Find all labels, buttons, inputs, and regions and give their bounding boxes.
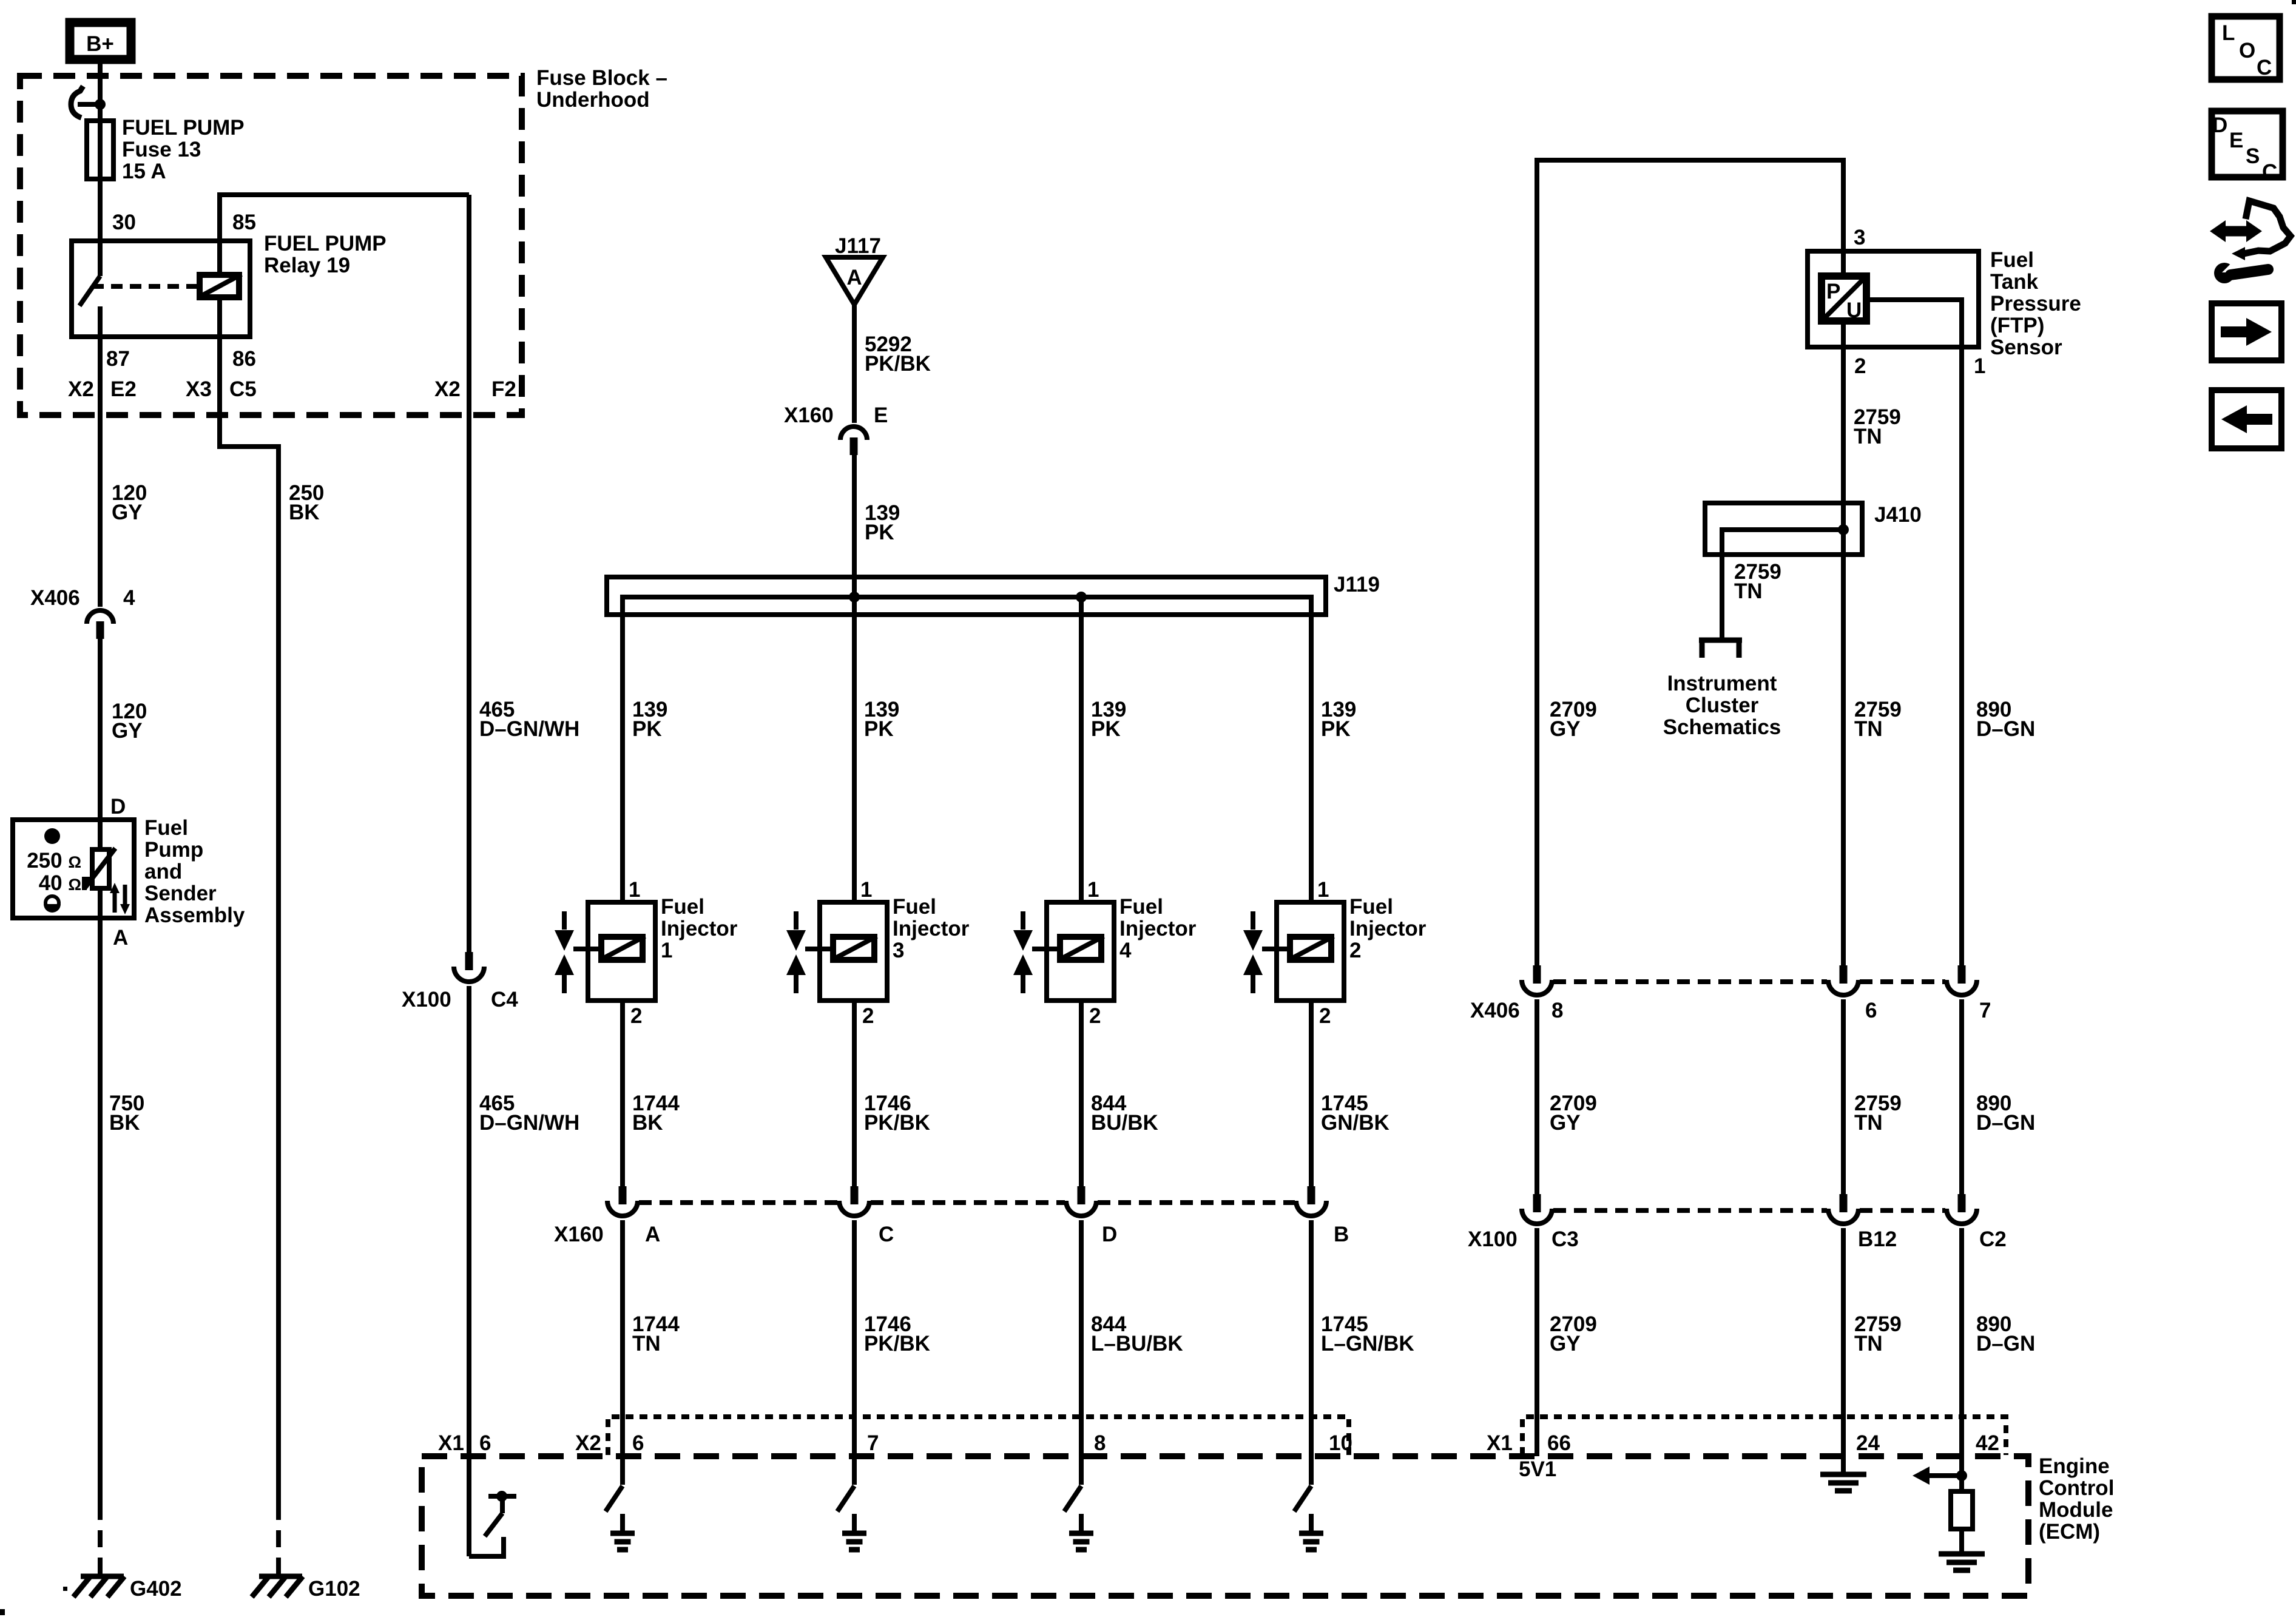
svg-text:D: D xyxy=(110,795,126,819)
svg-text:3: 3 xyxy=(893,939,904,962)
svg-text:66: 66 xyxy=(1547,1431,1571,1455)
svg-text:Injector: Injector xyxy=(1349,917,1427,940)
svg-text:8: 8 xyxy=(1094,1431,1106,1455)
svg-text:Control: Control xyxy=(2039,1476,2114,1500)
relay 19 box xyxy=(72,241,250,337)
svg-text:PK: PK xyxy=(1091,717,1121,741)
svg-text:X100: X100 xyxy=(1468,1227,1518,1251)
svg-text:TN: TN xyxy=(1854,717,1883,741)
ECM fuel pump driver switch xyxy=(469,1537,504,1556)
wire 2709 GY to ECM xyxy=(1535,1228,1539,1456)
svg-text:Fuel: Fuel xyxy=(1349,895,1393,919)
scan speck top right xyxy=(2292,0,2296,4)
connector X160 row dashed links xyxy=(639,1200,838,1205)
wire X160 D to ECM xyxy=(1079,1220,1084,1485)
svg-text:B+: B+ xyxy=(86,32,114,56)
svg-text:X100: X100 xyxy=(402,988,451,1011)
svg-text:FUEL PUMP: FUEL PUMP xyxy=(122,116,245,140)
svg-text:Cluster: Cluster xyxy=(1686,694,1759,717)
svg-text:J119: J119 xyxy=(1334,573,1380,596)
svg-text:Underhood: Underhood xyxy=(536,88,650,112)
svg-text:1: 1 xyxy=(661,939,672,962)
wire 86 to coil xyxy=(217,297,222,415)
svg-text:X2: X2 xyxy=(68,377,94,401)
relay coil dashed link xyxy=(92,284,200,289)
fuel pump sender box xyxy=(13,820,134,918)
svg-text:2: 2 xyxy=(1089,1004,1101,1028)
svg-text:2: 2 xyxy=(1854,354,1866,378)
svg-text:GN/BK: GN/BK xyxy=(1321,1111,1389,1135)
svg-text:J117: J117 xyxy=(835,234,881,258)
svg-text:2: 2 xyxy=(1319,1004,1331,1028)
wire to G102 dashed xyxy=(276,1503,281,1575)
svg-text:GY: GY xyxy=(1550,717,1581,741)
wire X160 B to ECM xyxy=(1309,1220,1314,1485)
wire 890 D-GN to ECM xyxy=(1959,1228,1964,1476)
wire 85 feed xyxy=(220,195,469,275)
wire 890 D-GN upper xyxy=(1959,347,1964,966)
svg-text:2: 2 xyxy=(1349,939,1361,962)
svg-text:Fuel: Fuel xyxy=(1119,895,1163,919)
svg-text:2: 2 xyxy=(862,1004,874,1028)
svg-text:G402: G402 xyxy=(130,1577,182,1601)
svg-text:TN: TN xyxy=(632,1332,661,1355)
connector X160 pin E xyxy=(840,427,867,440)
svg-text:6: 6 xyxy=(479,1431,491,1455)
svg-text:E: E xyxy=(2229,129,2243,152)
connector X100 pin B12 xyxy=(1840,1194,1848,1212)
connector X100 pin C2 xyxy=(1958,1194,1966,1212)
svg-text:7: 7 xyxy=(1979,999,1991,1022)
connector X100 row dashed links xyxy=(1553,1208,1827,1213)
ECM injector driver 3 xyxy=(837,1486,854,1511)
wire X160 C to ECM xyxy=(852,1220,857,1485)
svg-text:D–GN: D–GN xyxy=(1976,717,2035,741)
svg-text:Relay 19: Relay 19 xyxy=(264,254,350,277)
svg-text:C5: C5 xyxy=(229,377,257,401)
svg-text:X406: X406 xyxy=(1470,999,1520,1022)
wire 2759 TN upper xyxy=(1841,321,1846,966)
icon LOC box xyxy=(2212,16,2280,79)
svg-text:PK: PK xyxy=(864,717,894,741)
pump sender variable resistor xyxy=(98,820,103,849)
wire 750 BK xyxy=(98,918,103,1503)
wire X160 A to ECM xyxy=(620,1220,625,1485)
wire 120 GY upper xyxy=(98,337,103,607)
svg-text:A: A xyxy=(113,926,128,950)
svg-text:U: U xyxy=(1846,299,1862,322)
ECM injector driver 4 xyxy=(1064,1486,1081,1511)
svg-text:Module: Module xyxy=(2039,1498,2113,1522)
wire 139 PK to J119 xyxy=(852,454,857,902)
svg-text:2: 2 xyxy=(630,1004,642,1028)
svg-text:BU/BK: BU/BK xyxy=(1091,1111,1158,1135)
fuel tank pressure sensor box xyxy=(1808,251,1979,347)
connector X406 pin 6 xyxy=(1840,965,1848,984)
icon diagnostic wrench xyxy=(2223,226,2249,237)
svg-text:A: A xyxy=(645,1223,660,1246)
connector X100 pin C4 xyxy=(465,952,473,970)
svg-text:E: E xyxy=(874,403,888,427)
svg-text:Fuel: Fuel xyxy=(893,895,936,919)
fusible link symbol xyxy=(95,99,106,110)
wire to G402 dashed xyxy=(98,1503,103,1575)
ground G102 xyxy=(259,1574,302,1579)
svg-text:8: 8 xyxy=(1551,999,1563,1022)
wire 2759 TN mid2 xyxy=(1841,999,1846,1195)
ECM injector driver 2 xyxy=(1294,1486,1311,1511)
svg-text:4: 4 xyxy=(123,586,135,610)
svg-text:GY: GY xyxy=(1550,1332,1581,1355)
svg-text:S: S xyxy=(2246,144,2260,168)
svg-text:BK: BK xyxy=(109,1111,140,1135)
svg-text:BK: BK xyxy=(289,501,320,524)
svg-text:FUEL PUMP: FUEL PUMP xyxy=(264,232,387,255)
wire 120 GY lower xyxy=(98,638,103,820)
svg-text:and: and xyxy=(144,860,182,883)
svg-text:X406: X406 xyxy=(30,586,80,610)
relay switch contact xyxy=(98,241,103,276)
svg-text:Sensor: Sensor xyxy=(1990,336,2062,359)
svg-text:PK: PK xyxy=(632,717,662,741)
svg-text:3: 3 xyxy=(1854,226,1865,249)
svg-text:6: 6 xyxy=(632,1431,644,1455)
svg-text:D–GN: D–GN xyxy=(1976,1111,2035,1135)
svg-text:4: 4 xyxy=(1119,939,1132,962)
svg-text:Pressure: Pressure xyxy=(1990,292,2081,316)
ECM connector X2 outline xyxy=(608,1417,1349,1455)
power symbol B+ xyxy=(70,22,131,59)
svg-text:Engine: Engine xyxy=(2039,1454,2110,1478)
svg-text:1: 1 xyxy=(1317,878,1329,902)
connector X406 pin 4 xyxy=(87,610,113,624)
icon DESC box xyxy=(2212,111,2283,177)
fuel injector 2 xyxy=(1277,902,1344,1001)
connector X160 pin C xyxy=(851,1186,859,1204)
svg-text:PK: PK xyxy=(865,521,894,544)
svg-text:Instrument: Instrument xyxy=(1667,672,1777,695)
svg-text:86: 86 xyxy=(232,347,256,371)
ECM pin 42 input xyxy=(1956,1470,1967,1481)
fuse 13 FUEL PUMP 15A xyxy=(98,104,103,241)
svg-text:Injector: Injector xyxy=(661,917,738,940)
wire 890 D-GN mid2 xyxy=(1959,999,1964,1195)
svg-text:1: 1 xyxy=(629,878,640,902)
svg-text:J410: J410 xyxy=(1874,503,1922,527)
svg-text:PK/BK: PK/BK xyxy=(864,1111,930,1135)
connector X160 pin A xyxy=(619,1186,627,1204)
connector X100 pin C3 xyxy=(1533,1194,1541,1212)
svg-text:D–GN: D–GN xyxy=(1976,1332,2035,1355)
svg-text:E2: E2 xyxy=(110,377,137,401)
splice pack J117 triangle xyxy=(826,257,883,305)
wire 5V ref top route xyxy=(1537,160,1843,966)
svg-text:Injector: Injector xyxy=(893,917,970,940)
svg-text:C2: C2 xyxy=(1979,1227,2007,1251)
svg-text:TN: TN xyxy=(1854,1332,1883,1355)
svg-text:1: 1 xyxy=(860,878,872,902)
FTP sensor P/U element xyxy=(1822,276,1866,321)
svg-text:Injector: Injector xyxy=(1119,917,1197,940)
svg-text:24: 24 xyxy=(1856,1431,1880,1455)
connector X406 row dashed links xyxy=(1553,979,1827,984)
svg-text:X1: X1 xyxy=(1487,1431,1513,1455)
svg-text:P: P xyxy=(1826,280,1840,303)
svg-text:X2: X2 xyxy=(575,1431,601,1455)
svg-text:Pump: Pump xyxy=(144,838,203,862)
svg-text:Fuel: Fuel xyxy=(661,895,704,919)
instrument cluster off-page connector xyxy=(1720,600,1724,638)
svg-text:PK/BK: PK/BK xyxy=(865,352,931,376)
wire 465 upper xyxy=(467,195,471,953)
svg-text:Fuel: Fuel xyxy=(1990,248,2034,272)
FTP internal signal wire xyxy=(1866,300,1962,347)
svg-text:D: D xyxy=(1102,1223,1117,1246)
svg-text:G102: G102 xyxy=(308,1577,360,1601)
svg-text:X2: X2 xyxy=(434,377,461,401)
svg-text:C: C xyxy=(2257,56,2272,79)
ECM ground pin 24 xyxy=(1820,1472,1866,1477)
pump arrows xyxy=(113,892,117,913)
splice J410 box xyxy=(1705,503,1862,555)
pump empty dot xyxy=(46,896,59,910)
connector X160 pin D xyxy=(1078,1186,1086,1204)
ECM injector driver 1 xyxy=(606,1486,623,1511)
svg-text:85: 85 xyxy=(232,211,256,234)
connector X406 pin 8 xyxy=(1533,965,1541,984)
connector X160 pin B xyxy=(1308,1186,1315,1204)
svg-text:X160: X160 xyxy=(554,1223,604,1246)
fuel injector 1 xyxy=(588,902,655,1001)
svg-text:X160: X160 xyxy=(784,403,834,427)
svg-text:D–GN/WH: D–GN/WH xyxy=(479,1111,579,1135)
svg-text:Fuel: Fuel xyxy=(144,816,188,840)
svg-text:B12: B12 xyxy=(1858,1227,1897,1251)
ECM connector X1 outline xyxy=(1522,1417,2006,1455)
svg-text:Fuse Block –: Fuse Block – xyxy=(536,66,667,90)
wire 465 lower xyxy=(467,986,471,1556)
svg-text:PK: PK xyxy=(1321,717,1351,741)
wire 250 BK xyxy=(220,415,279,1503)
svg-text:1: 1 xyxy=(1087,878,1099,902)
svg-text:A: A xyxy=(846,266,862,289)
wire 2759 TN to ECM xyxy=(1841,1228,1846,1473)
engine control module dashed box xyxy=(422,1456,2028,1596)
icon arrow next box xyxy=(2212,303,2281,360)
svg-text:1: 1 xyxy=(1974,354,1985,378)
svg-text:D: D xyxy=(2212,113,2227,137)
svg-text:TN: TN xyxy=(1854,425,1882,448)
svg-text:TN: TN xyxy=(1734,579,1763,603)
wire injector 2 to X160 xyxy=(1309,1001,1314,1187)
svg-text:(FTP): (FTP) xyxy=(1990,314,2044,337)
svg-text:D–GN/WH: D–GN/WH xyxy=(479,717,579,741)
svg-text:O: O xyxy=(2239,39,2255,62)
svg-text:C4: C4 xyxy=(491,988,518,1011)
svg-text:L: L xyxy=(2222,21,2235,45)
relay coil xyxy=(200,275,239,297)
icon arrow back box xyxy=(2212,390,2281,448)
svg-text:42: 42 xyxy=(1976,1431,1999,1455)
wire 2709 GY mid2 xyxy=(1535,999,1539,1195)
svg-text:(ECM): (ECM) xyxy=(2039,1520,2100,1544)
wire B+ to fuse 13 xyxy=(98,59,103,121)
svg-text:BK: BK xyxy=(632,1111,663,1135)
fuel injector 4 xyxy=(1047,902,1114,1001)
svg-text:Schematics: Schematics xyxy=(1663,715,1781,739)
fuel injector 3 xyxy=(820,902,887,1001)
svg-text:F2: F2 xyxy=(491,377,516,401)
ground G402 xyxy=(81,1574,124,1579)
svg-text:X3: X3 xyxy=(186,377,212,401)
wire 5292 PK/BK xyxy=(852,305,857,423)
svg-text:Assembly: Assembly xyxy=(144,903,245,927)
pump full dot xyxy=(44,828,60,844)
svg-text:B: B xyxy=(1334,1223,1349,1246)
wire injector 1 to X160 xyxy=(620,1001,625,1187)
wire injector 4 to X160 xyxy=(1079,1001,1084,1187)
svg-text:TN: TN xyxy=(1854,1111,1883,1135)
svg-text:L–GN/BK: L–GN/BK xyxy=(1321,1332,1414,1355)
svg-text:GY: GY xyxy=(112,501,143,524)
svg-text:Fuse 13: Fuse 13 xyxy=(122,138,201,161)
scan speck bottom left xyxy=(0,1609,5,1615)
svg-text:PK/BK: PK/BK xyxy=(864,1332,930,1355)
connector X406 pin 7 xyxy=(1958,965,1966,984)
svg-text:15 A: 15 A xyxy=(122,160,166,183)
fuse block underhood dashed box xyxy=(20,76,522,415)
svg-text:5V1: 5V1 xyxy=(1519,1457,1556,1481)
svg-text:C: C xyxy=(879,1223,894,1246)
svg-text:30: 30 xyxy=(112,211,136,234)
svg-text:GY: GY xyxy=(1550,1111,1581,1135)
svg-text:C3: C3 xyxy=(1551,1227,1579,1251)
svg-text:Sender: Sender xyxy=(144,882,217,905)
svg-text:Tank: Tank xyxy=(1990,270,2039,294)
svg-text:GY: GY xyxy=(112,719,143,743)
splice J119 box xyxy=(607,577,1326,615)
svg-text:X1: X1 xyxy=(438,1431,464,1455)
svg-text:C: C xyxy=(2262,160,2277,184)
svg-text:6: 6 xyxy=(1865,999,1877,1022)
svg-text:L–BU/BK: L–BU/BK xyxy=(1091,1332,1183,1355)
wire injector 3 to X160 xyxy=(852,1001,857,1187)
svg-text:7: 7 xyxy=(867,1431,879,1455)
svg-text:87: 87 xyxy=(106,347,130,371)
